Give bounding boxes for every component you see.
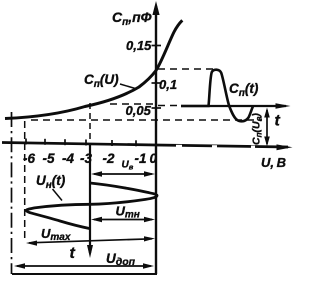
svg-text:Cп(t): Cп(t) xyxy=(229,81,259,99)
dashed vertical at U max point xyxy=(24,121,26,242)
Uв double arrow xyxy=(91,171,155,176)
dashed horizontal at Cп min level xyxy=(31,119,262,121)
dashed horizontal to waveform baseline right xyxy=(158,105,182,107)
svg-text:Uв: Uв xyxy=(122,160,134,172)
svg-text:Uн(t): Uн(t) xyxy=(36,173,66,191)
svg-text:-1: -1 xyxy=(135,151,147,166)
svg-text:Umax: Umax xyxy=(41,226,71,243)
Uдоп double arrow xyxy=(14,263,154,268)
C axis (vertical) xyxy=(152,1,159,274)
svg-text:-4: -4 xyxy=(62,151,74,166)
dashed horizontal at 0,05 level left xyxy=(110,103,153,105)
svg-text:t: t xyxy=(275,113,281,130)
dashed horizontal at Cп max level xyxy=(158,68,214,70)
svg-text:Cп(U): Cп(U) xyxy=(84,72,119,90)
waveform Cп(t) xyxy=(181,70,253,122)
svg-text:-5: -5 xyxy=(43,151,55,166)
svg-text:0,15: 0,15 xyxy=(126,38,152,53)
Umax double arrow xyxy=(26,236,155,246)
svg-text:0,1: 0,1 xyxy=(159,77,177,92)
t axis (bottom, vertical) xyxy=(87,144,93,258)
C axis ticks xyxy=(152,46,162,109)
dashed vertical from curve to axis at bias point xyxy=(89,103,91,144)
svg-text:U, В: U, В xyxy=(261,155,286,170)
scan gaps on U axis right part xyxy=(176,145,182,149)
U axis ticks xyxy=(26,139,136,147)
svg-text:0,05: 0,05 xyxy=(126,103,152,118)
left dash-dot border line xyxy=(11,112,13,274)
svg-text:Umн: Umн xyxy=(116,204,140,221)
svg-text:Uдоп: Uдоп xyxy=(106,251,136,268)
curve Cп(U) xyxy=(5,20,182,118)
Uтн double arrow xyxy=(91,217,155,222)
bottom border line xyxy=(12,273,157,275)
svg-text:0: 0 xyxy=(150,151,158,166)
sine wave Uн(t) xyxy=(26,183,157,229)
svg-text:t: t xyxy=(70,245,76,262)
t axis of Cп(t) waveform xyxy=(181,103,291,109)
U axis number labels xyxy=(23,151,158,166)
U axis (horizontal) xyxy=(2,143,293,151)
svg-text:Cп,пФ: Cп,пФ xyxy=(112,9,152,28)
svg-text:-2: -2 xyxy=(103,151,115,166)
vertical double arrow Cп(Uв) xyxy=(264,108,270,147)
svg-text:Cп(Uв): Cп(Uв) xyxy=(251,113,264,145)
